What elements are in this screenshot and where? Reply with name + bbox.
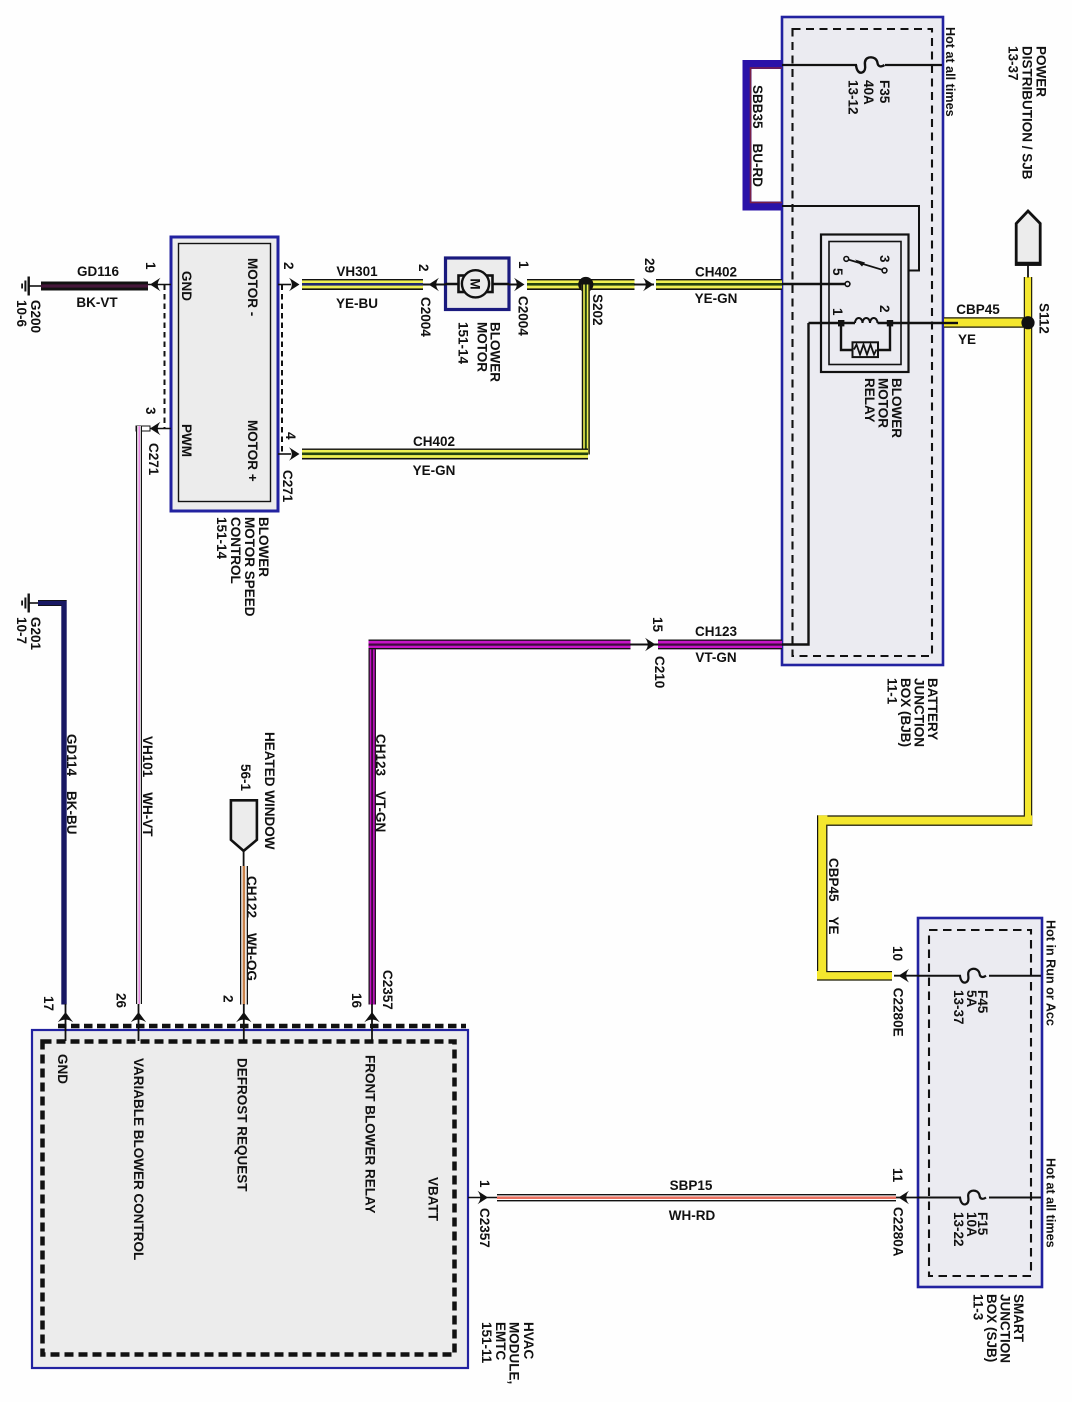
svg-text:17: 17 [41, 996, 56, 1011]
svg-text:56-1: 56-1 [238, 764, 253, 792]
svg-text:1: 1 [477, 1180, 492, 1188]
svg-text:13-37: 13-37 [951, 990, 966, 1025]
svg-text:G201: G201 [28, 617, 43, 651]
svg-text:Hot at all times: Hot at all times [1044, 1158, 1058, 1248]
resistor [841, 326, 853, 350]
svg-text:C271: C271 [280, 470, 295, 503]
svg-text:40A: 40A [861, 80, 876, 105]
svg-text:YE-GN: YE-GN [695, 291, 738, 306]
svg-text:MOTOR: MOTOR [475, 322, 490, 372]
svg-text:15: 15 [650, 617, 665, 633]
blower motor box [446, 258, 510, 310]
pin 2 MOTOR- arrow [278, 284, 291, 286]
coil line pins 1-2 [809, 322, 856, 325]
svg-text:3: 3 [143, 407, 158, 415]
svg-text:C2357: C2357 [477, 1208, 492, 1248]
svg-text:13-12: 13-12 [846, 80, 861, 115]
connector C210 pin 15 arrow [630, 644, 658, 646]
svg-text:GD114 BK-BU: GD114 BK-BU [64, 734, 79, 835]
wire CH402 YE-GN motor to S202 [527, 279, 635, 290]
svg-text:1: 1 [516, 261, 531, 269]
svg-text:MOTOR -: MOTOR - [245, 258, 260, 316]
pin 3 PWM arrow [148, 428, 171, 430]
svg-text:11-3: 11-3 [971, 1294, 986, 1321]
svg-text:M: M [468, 278, 483, 289]
svg-text:151-14: 151-14 [214, 517, 229, 560]
svg-text:10-7: 10-7 [14, 617, 29, 644]
svg-text:11: 11 [890, 1168, 905, 1183]
splice node S202 [578, 277, 593, 292]
svg-text:G200: G200 [28, 300, 43, 333]
connector C2357 dashed line [58, 1024, 466, 1029]
SJB pin 11 arrow C2280A [896, 1197, 918, 1199]
svg-text:1: 1 [143, 262, 158, 270]
svg-text:F35: F35 [877, 80, 892, 104]
pin 4 MOTOR+ arrow [278, 453, 291, 455]
contact blade [844, 257, 849, 262]
svg-text:VARIABLE BLOWER CONTROL: VARIABLE BLOWER CONTROL [131, 1058, 146, 1260]
heated window connector pentagon 56-1 [231, 800, 257, 866]
svg-text:MOTOR SPEED: MOTOR SPEED [242, 517, 257, 617]
svg-text:DISTRIBUTION / SJB: DISTRIBUTION / SJB [1020, 46, 1035, 180]
svg-text:C271: C271 [146, 443, 161, 476]
svg-text:C2280E: C2280E [890, 988, 905, 1037]
svg-text:CH402: CH402 [413, 434, 455, 449]
svg-text:YE-BU: YE-BU [336, 296, 378, 311]
ground G201 [21, 594, 39, 613]
wire GD116 BK-VT [41, 282, 148, 291]
wire SBB35 to relay pin 3 [782, 206, 919, 271]
svg-text:YE-GN: YE-GN [413, 463, 456, 478]
wire CH402 YE-GN S202 to MOTOR+ [302, 285, 590, 460]
svg-text:13-37: 13-37 [1006, 46, 1021, 81]
svg-text:GD116: GD116 [77, 264, 120, 279]
splice node S112 [1021, 316, 1034, 329]
svg-text:CH123 VT-GN: CH123 VT-GN [373, 734, 388, 832]
svg-text:BLOWER: BLOWER [256, 517, 271, 577]
power distribution connector pentagon [1015, 211, 1041, 278]
svg-text:C2357: C2357 [380, 970, 395, 1010]
svg-text:EMTC: EMTC [493, 1322, 508, 1360]
svg-text:C2004: C2004 [516, 296, 531, 336]
svg-text:GND: GND [179, 271, 194, 301]
svg-text:Hot at all times: Hot at all times [943, 27, 957, 117]
svg-text:HEATED WINDOW: HEATED WINDOW [262, 732, 277, 850]
svg-text:151-14: 151-14 [456, 322, 471, 365]
pin 5 contact [845, 282, 850, 287]
svg-text:YE: YE [958, 332, 976, 347]
HVAC pin stems 17 26 2 16 [66, 1004, 373, 1041]
wire CH122 WH-OG [240, 866, 248, 1005]
wire VH101 WH-VT [136, 426, 150, 1004]
wire GD114 outline [38, 600, 67, 605]
svg-text:CBP45: CBP45 [956, 302, 1000, 317]
svg-text:1: 1 [830, 308, 845, 316]
svg-text:S202: S202 [590, 294, 605, 326]
ground G200 [21, 277, 42, 296]
svg-text:HVAC: HVAC [521, 1322, 536, 1360]
wire SBB35 BU-RD bus [747, 65, 782, 207]
HVAC module box [32, 1030, 468, 1368]
svg-text:S112: S112 [1037, 303, 1052, 334]
svg-text:10-6: 10-6 [14, 300, 29, 328]
smart junction box SJB [918, 918, 1042, 1287]
svg-text:WH-RD: WH-RD [669, 1208, 716, 1223]
svg-text:VH101 WH-VT: VH101 WH-VT [140, 736, 155, 837]
motor symbol M [446, 270, 510, 297]
svg-text:16: 16 [349, 993, 364, 1009]
fuse F45 5A [918, 969, 1041, 983]
fuse F15 10A [918, 1191, 1041, 1205]
svg-text:POWER: POWER [1034, 46, 1049, 97]
connector C271 dashed line (right, pins 2-4) [281, 285, 283, 455]
svg-text:13-22: 13-22 [951, 1212, 966, 1247]
connector C2004 pin 1 arrow [509, 284, 517, 286]
svg-text:CH123: CH123 [695, 624, 738, 639]
svg-text:FRONT BLOWER RELAY: FRONT BLOWER RELAY [363, 1055, 378, 1214]
svg-text:BK-VT: BK-VT [76, 295, 118, 310]
svg-text:CBP45 YE: CBP45 YE [826, 858, 841, 935]
BJB pin 29 arrow [634, 284, 654, 286]
wire CH402 YE-GN S202 to BJB [656, 279, 782, 290]
wire VH301 YE-BU [302, 279, 423, 290]
svg-text:2: 2 [416, 264, 431, 272]
svg-text:26: 26 [114, 993, 129, 1009]
wire CBP45 YE [817, 277, 1032, 981]
connector C2004 pin 2 arrow [423, 284, 446, 286]
blower motor speed control module box [171, 237, 278, 511]
HVAC pin arrows 17 26 2 16 [58, 1012, 380, 1022]
svg-text:RELAY: RELAY [862, 378, 877, 423]
svg-text:CH122 WH-OG: CH122 WH-OG [244, 876, 259, 981]
battery junction box BJB [782, 17, 943, 665]
fuse F35 40A [782, 57, 942, 72]
svg-text:4: 4 [283, 432, 298, 440]
wire CH123 VT-GN C210 to BJB [658, 640, 782, 650]
HVAC pin 1 VBATT arrow C2357 [468, 1197, 497, 1199]
SJB pin 10 arrow C2280E [894, 975, 918, 977]
svg-text:VH301: VH301 [336, 264, 378, 279]
svg-text:2: 2 [877, 305, 892, 313]
svg-text:C2280A: C2280A [890, 1207, 905, 1257]
svg-text:C2004: C2004 [418, 297, 433, 337]
svg-text:SBB35 BU-RD: SBB35 BU-RD [750, 85, 765, 187]
svg-text:VBATT: VBATT [426, 1177, 441, 1222]
wire GD114 BK-BU [38, 603, 64, 1005]
svg-text:11-1: 11-1 [885, 678, 900, 705]
relay: blower motor relay [782, 235, 958, 373]
svg-text:DEFROST REQUEST: DEFROST REQUEST [235, 1058, 250, 1192]
svg-text:29: 29 [642, 258, 657, 273]
svg-text:C210: C210 [652, 656, 667, 688]
svg-text:CH402: CH402 [695, 265, 737, 280]
wire relay pin 1 to CH123 [782, 323, 809, 645]
svg-text:151-11: 151-11 [479, 1322, 494, 1364]
svg-text:MOTOR +: MOTOR + [245, 420, 260, 482]
svg-text:2: 2 [281, 262, 296, 270]
wire CH123 VT-GN [369, 640, 631, 1005]
svg-text:10: 10 [890, 946, 905, 961]
svg-text:VT-GN: VT-GN [695, 650, 736, 665]
connector C271 dashed line (left, pins 1-3) [164, 285, 166, 429]
svg-text:GND: GND [55, 1054, 70, 1084]
svg-text:SBP15: SBP15 [670, 1178, 713, 1193]
svg-text:BLOWER: BLOWER [488, 322, 503, 382]
svg-text:2: 2 [221, 995, 236, 1003]
svg-text:PWM: PWM [179, 424, 194, 457]
svg-text:3: 3 [877, 255, 892, 263]
pin 1 GND arrow [148, 284, 171, 286]
svg-text:CONTROL: CONTROL [228, 517, 243, 584]
svg-text:5: 5 [830, 268, 845, 276]
svg-text:Hot in Run or Acc: Hot in Run or Acc [1044, 920, 1058, 1026]
wire SBP15 WH-RD [497, 1194, 896, 1201]
